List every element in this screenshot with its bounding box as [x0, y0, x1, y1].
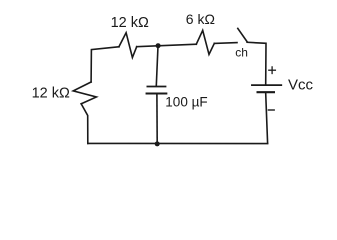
node B junction dot (bottom, capacitor tap): [155, 141, 160, 146]
svg-text:ch: ch: [235, 45, 248, 59]
battery V1 positive plate (long): [252, 84, 281, 86]
wire: bottom-left vertical lead up to R3: [81, 104, 88, 144]
wire: top-left corner and left vertical lead: [91, 47, 119, 82]
wire: battery - down to bottom-right corner: [266, 93, 268, 143]
battery V1 plus sign marks: [269, 67, 276, 74]
wire: from R2 to switch left contact: [214, 42, 237, 45]
wire: capacitor top lead from node A: [156, 46, 158, 86]
capacitor C1 top plate: [147, 86, 165, 88]
switch S1 blade (open, labelled ch): [238, 28, 247, 41]
resistor R2 6 kOhm (top right, zigzag): [196, 30, 214, 54]
wire: bottom rail: [88, 142, 268, 144]
svg-text:12 kΩ: 12 kΩ: [111, 15, 149, 31]
svg-text:12 kΩ: 12 kΩ: [32, 85, 70, 101]
node A junction dot (top, capacitor tap): [156, 43, 161, 48]
capacitor C1 bottom plate: [147, 93, 167, 95]
svg-text:100 µF: 100 µF: [165, 94, 207, 109]
svg-text:6 kΩ: 6 kΩ: [186, 11, 215, 27]
svg-text:Vcc: Vcc: [288, 77, 314, 94]
battery V1 negative plate (short): [258, 91, 274, 93]
wire: capacitor bottom lead to node B: [156, 94, 158, 143]
battery V1 minus sign mark: [268, 109, 274, 111]
wire: switch right contact to top-right corner, down to battery +: [247, 42, 266, 84]
resistor R3 12 kOhm (left vertical, zigzag): [73, 82, 96, 104]
wire: top rail from R1 to R2 through node A: [137, 44, 197, 47]
resistor R1 12 kOhm (top left, zigzag): [119, 33, 137, 58]
